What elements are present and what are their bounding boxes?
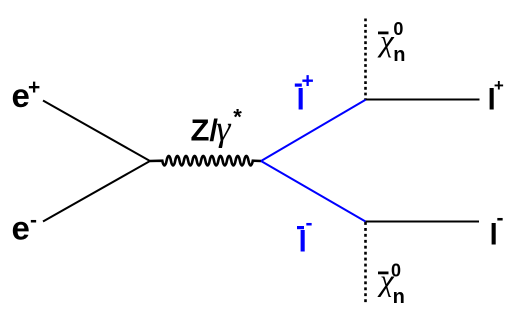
label neutralino top (chi-bar 0 n) (377, 19, 405, 66)
neutralino dotted line bottom (364, 222, 367, 302)
svg-text:0: 0 (391, 261, 401, 281)
neutralino dotted line top (364, 19, 367, 100)
wire l+ outgoing horizontal line (366, 99, 480, 101)
label neutralino bottom (chi-bar 0 n) (377, 261, 405, 308)
label e- (12, 209, 38, 247)
label Z/gamma* (191, 105, 243, 149)
svg-text:n: n (393, 286, 405, 308)
svg-text:0: 0 (393, 19, 403, 39)
photon/Z propagator wavy line (150, 156, 261, 165)
svg-text:e: e (12, 210, 30, 247)
svg-text:+: + (302, 70, 314, 93)
label l+ (black, right top) (488, 76, 504, 116)
svg-text:γ: γ (216, 108, 231, 148)
svg-text:*: * (233, 105, 242, 130)
label slepton+ (blue l-tilde plus) (295, 70, 314, 117)
wire e- incoming line (43, 161, 150, 222)
label slepton- (blue l-tilde minus) (297, 212, 313, 258)
svg-text:Z/: Z/ (191, 113, 219, 148)
wire l- outgoing horizontal line (366, 221, 480, 223)
svg-text:+: + (28, 76, 40, 99)
wire slepton- (blue, down-right) (261, 161, 366, 222)
wire e+ incoming line (43, 101, 150, 162)
svg-text:-: - (30, 209, 37, 232)
svg-text:-: - (497, 207, 504, 230)
svg-text:n: n (393, 44, 405, 66)
svg-text:+: + (494, 76, 504, 95)
svg-text:-: - (306, 212, 313, 235)
label e+ (12, 76, 41, 114)
label l- (black, right bottom) (490, 207, 504, 251)
wire slepton+ (blue, up-right) (261, 100, 366, 162)
